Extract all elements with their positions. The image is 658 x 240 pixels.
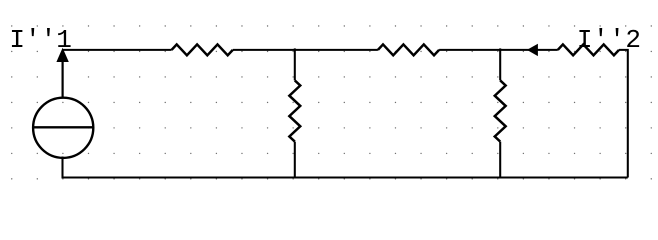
wire: top-right corner + right rail <box>619 50 628 178</box>
current arrow I''2 (left) <box>527 44 538 56</box>
current arrow I''1 (up) <box>56 48 68 98</box>
wire: right shunt branch stubs <box>499 48 501 177</box>
resistor (right shunt vertical) <box>495 80 506 141</box>
resistor (top-right horizontal) <box>558 44 619 55</box>
resistor (top-left horizontal) <box>172 44 233 55</box>
wire: left shunt branch stubs <box>294 48 296 177</box>
resistor (left shunt vertical) <box>289 80 300 141</box>
current source (circle with horizontal bar) <box>33 98 93 158</box>
wire: bottom rail <box>63 157 628 178</box>
wire: top rail segments <box>62 49 558 51</box>
resistor (top-middle horizontal) <box>378 44 439 55</box>
